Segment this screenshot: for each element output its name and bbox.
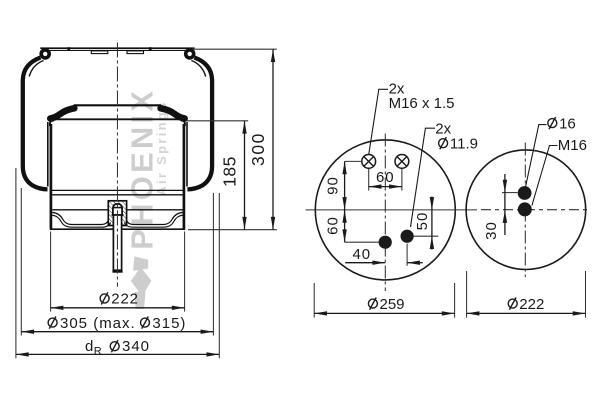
- bead plate bottom line: [41, 49, 194, 51]
- leader M16: [532, 146, 558, 206]
- M16 hole left: [362, 155, 376, 169]
- dim Ø222 label: [100, 292, 109, 304]
- bellows top face over piston: [74, 104, 162, 106]
- svg-text:40: 40: [352, 246, 371, 263]
- dim Ø340 extension right: [218, 193, 220, 358]
- svg-text:300: 300: [248, 132, 268, 166]
- piston bottom plate top line left: [52, 209, 108, 211]
- dim 90 label: [325, 176, 342, 195]
- svg-text:11.9: 11.9: [450, 136, 478, 153]
- dim Ø222 extension right: [184, 232, 186, 312]
- svg-text:16: 16: [559, 115, 576, 132]
- leader M16x1.5: [369, 89, 388, 154]
- dim 50 ref line: [414, 235, 439, 237]
- svg-text:60: 60: [325, 216, 342, 235]
- dim 185 line: [244, 121, 246, 230]
- svg-text:30: 30: [483, 221, 500, 240]
- centerline left view: [116, 43, 118, 287]
- dim Ø222 right label: [508, 298, 517, 310]
- plate rivet tick left: [67, 47, 70, 51]
- bolt end cap: [112, 270, 122, 273]
- bolt head dome: [113, 204, 122, 215]
- dim Ø222 right line: [467, 312, 586, 314]
- piston top edge: [50, 119, 185, 126]
- dim 60 horizontal drop left: [368, 169, 370, 191]
- svg-text:340: 340: [122, 338, 150, 355]
- dim 30 label: [483, 221, 500, 240]
- dim Ø305 extension right: [212, 193, 214, 336]
- svg-text:Air Springs: Air Springs: [154, 100, 169, 195]
- stamped plate contour upper left: [52, 212, 108, 224]
- svg-text:222: 222: [111, 291, 138, 308]
- svg-text:315): 315): [152, 315, 186, 332]
- M16 hole right: [395, 155, 409, 169]
- dim 90/60 ref bottom: [345, 241, 379, 243]
- svg-text:M16 x 1.5: M16 x 1.5: [389, 95, 455, 112]
- bellows clamped end right: [161, 108, 185, 118]
- plate rivet tick right: [149, 47, 152, 51]
- stamped plate contour lower left: [52, 215, 110, 227]
- watermark logo PHOENIX: [124, 88, 159, 250]
- dim 60 horizontal drop right: [401, 169, 403, 191]
- hole Ø16: [518, 186, 532, 200]
- dim 60 vertical label: [325, 216, 342, 235]
- piston wall right: [183, 124, 186, 229]
- bellows inner curve left: [29, 61, 43, 77]
- dim 300 label: [248, 132, 268, 166]
- horizontal centerline: [306, 209, 478, 211]
- piston bottom plate top line right: [127, 209, 183, 211]
- label Ø16: [548, 117, 557, 129]
- svg-text:305 (max.: 305 (max.: [60, 315, 136, 332]
- dim 300 line: [272, 49, 274, 230]
- washer line: [111, 214, 123, 216]
- bolt head inner line: [114, 207, 122, 209]
- stamped plate contour lower right: [124, 215, 182, 227]
- bolt rod: [113, 215, 121, 270]
- dim 30 line: [504, 174, 506, 235]
- dim 300 top extension: [192, 48, 277, 50]
- svg-text:90: 90: [325, 176, 342, 195]
- dim 40 line: [345, 262, 385, 264]
- bead roll right: [186, 50, 194, 58]
- dim Ø259 extension left: [313, 283, 315, 318]
- svg-text:222: 222: [519, 296, 544, 313]
- dim Ø340 line: [16, 353, 219, 355]
- clamp clip right: [127, 51, 144, 54]
- dim 50 line: [431, 197, 433, 250]
- dim 50 label: [414, 212, 431, 231]
- dim Ø340 extension left: [15, 168, 17, 358]
- dim Ø305 extension left: [20, 188, 22, 336]
- svg-text:259: 259: [380, 296, 405, 313]
- dim 185 label: [219, 156, 239, 187]
- watermark chevron: [133, 257, 148, 271]
- piston bottom edge: [50, 228, 185, 230]
- top view circle: [315, 140, 455, 280]
- horizontal centerline dashed: [481, 209, 590, 211]
- dim 30 ref line: [502, 192, 518, 194]
- bellows inner curve right: [191, 61, 205, 77]
- svg-text:185: 185: [219, 156, 239, 187]
- clamp clip left: [91, 51, 108, 54]
- dim 90/60 ref top: [345, 160, 362, 162]
- bellows outer contour right: [187, 58, 212, 190]
- dim 90/60 line: [344, 161, 346, 242]
- dim Ø222 extension left: [50, 232, 52, 312]
- hole M16: [518, 202, 532, 216]
- central boss hatched: [108, 201, 126, 226]
- hole Ø11.9 on centerline: [379, 236, 392, 249]
- rolling lobe inner line right: [186, 122, 188, 187]
- leader Ø16: [526, 125, 547, 187]
- bead plate top line: [40, 47, 194, 49]
- rolling lobe inner line left: [47, 122, 49, 187]
- svg-text:60: 60: [376, 169, 395, 186]
- vertical centerline: [384, 134, 386, 292]
- piston roll-off edge line: [52, 189, 183, 191]
- piston wall left: [50, 124, 53, 229]
- dim Ø259 line: [314, 312, 454, 314]
- dim 60 horizontal line: [369, 186, 402, 188]
- bead roll left: [41, 50, 49, 58]
- piston inner shelf line: [52, 194, 182, 196]
- watermark text Air Springs: [154, 100, 169, 195]
- dim Ø222 line: [51, 307, 185, 309]
- dim Ø222 right extension right: [585, 271, 587, 318]
- dim Ø259 extension right: [454, 283, 456, 318]
- watermark tail: [135, 292, 146, 309]
- leader Ø11.9: [411, 128, 436, 227]
- bellows outer contour left: [23, 58, 48, 190]
- hole Ø11.9 offset: [401, 230, 414, 243]
- dim Ø305 label: [48, 317, 57, 329]
- dim 185 top extension: [187, 120, 249, 122]
- bellows clamped end left: [50, 108, 74, 118]
- stamped plate contour upper right: [127, 212, 183, 224]
- watermark diamond: [131, 267, 152, 296]
- dim 185/300 bottom extension: [188, 229, 277, 231]
- svg-text:R: R: [94, 346, 102, 358]
- bottom view circle: [466, 150, 586, 270]
- vertical centerline dashed: [524, 143, 526, 278]
- svg-text:M16: M16: [558, 137, 587, 154]
- dim Ø305 line: [21, 331, 213, 333]
- dim Ø222 right extension left: [466, 271, 468, 318]
- dim Ø259 label: [368, 298, 377, 310]
- svg-text:50: 50: [414, 212, 431, 231]
- dim 40 drop from hole: [406, 244, 408, 266]
- svg-text:d: d: [85, 338, 93, 355]
